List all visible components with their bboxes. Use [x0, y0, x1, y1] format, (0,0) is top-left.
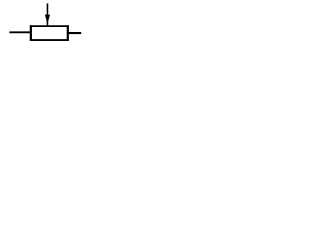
resistor R1 body: left edge: [30, 25, 32, 41]
resistor R1 body: bottom edge: [30, 39, 69, 41]
wire right lead: [68, 32, 81, 34]
wiper arrow head: [45, 15, 50, 24]
wiper arrow shaft: [46, 3, 48, 25]
resistor R1 body: right edge: [67, 25, 69, 41]
wire left lead: [9, 31, 31, 33]
resistor R1 body: top edge: [30, 25, 69, 27]
variable resistor symbol (schematic): [0, 0, 90, 43]
